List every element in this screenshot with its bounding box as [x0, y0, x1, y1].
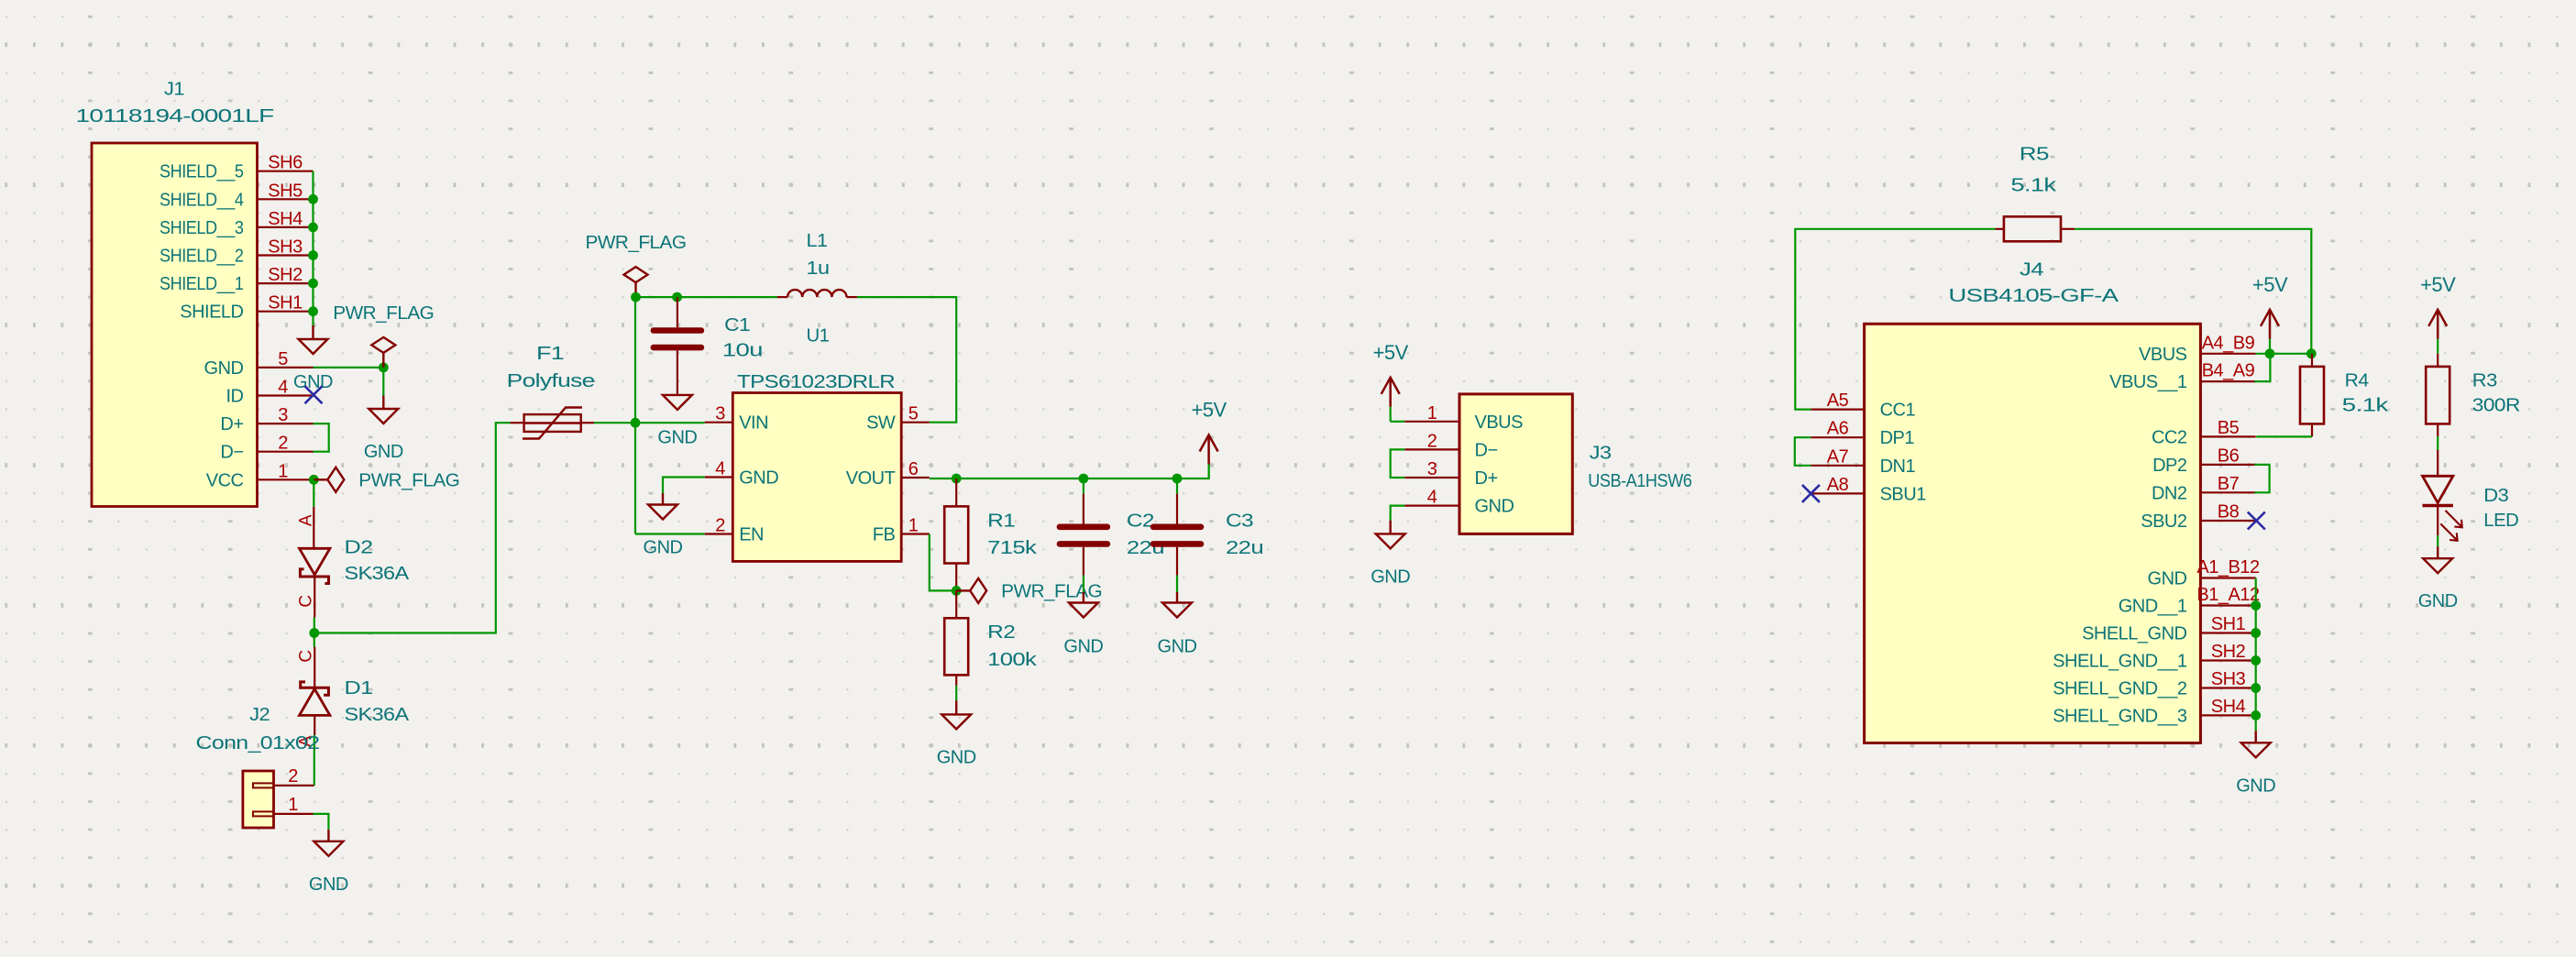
led D3 emission arrows — [2440, 511, 2462, 541]
svg-text:SH4: SH4 — [268, 209, 303, 229]
svg-text:715k: 715k — [987, 538, 1038, 558]
svg-text:U1: U1 — [807, 325, 830, 346]
svg-text:R2: R2 — [987, 622, 1015, 643]
resistor R3 body — [2426, 367, 2449, 424]
J4 pin SH1 SHELL_GND — [2200, 632, 2255, 633]
svg-text:USB-A1HSW6: USB-A1HSW6 — [1588, 471, 1691, 491]
wire C3 to ground — [1176, 576, 1178, 593]
J4 pin A1_B12 GND — [2200, 577, 2255, 578]
svg-text:A4_B9: A4_B9 — [2202, 333, 2255, 353]
svg-text:5: 5 — [908, 404, 919, 424]
svg-text:J2: J2 — [249, 705, 270, 725]
wire J2 pin1 to ground — [314, 814, 329, 830]
J4 pin B5 CC2 — [2200, 435, 2255, 437]
svg-text:B4_A9: B4_A9 — [2202, 361, 2255, 381]
resistor R4 bottom stem — [2311, 423, 2313, 436]
junction VOUT R1 — [952, 474, 962, 484]
capacitor C2 top stem — [1083, 494, 1084, 524]
junction J4 ground bus y=750.5 — [2251, 683, 2261, 693]
svg-text:SHELL_GND__2: SHELL_GND__2 — [2053, 679, 2187, 699]
svg-text:SH4: SH4 — [2211, 697, 2246, 717]
wire J4 DP2 DN2 short — [2254, 465, 2269, 492]
J4 pin B8 SBU2 — [2200, 520, 2255, 522]
J4 pin A7 DN1 — [1811, 465, 1864, 467]
svg-text:C2: C2 — [1127, 511, 1154, 531]
svg-text:Polyfuse: Polyfuse — [507, 371, 595, 391]
svg-text:SH1: SH1 — [2211, 614, 2246, 634]
led D3 cathode bar — [2423, 504, 2453, 507]
resistor R4 top stem — [2311, 354, 2313, 367]
resistor R5 body — [2004, 216, 2061, 241]
svg-text:DN2: DN2 — [2152, 483, 2187, 503]
svg-text:SH1: SH1 — [268, 293, 303, 313]
J3 pin 4 GND — [1404, 504, 1459, 506]
svg-text:DN1: DN1 — [1880, 456, 1916, 477]
J1 pin SH6 SHIELD__5 — [258, 170, 314, 172]
led D3 cathode pin — [2437, 506, 2438, 536]
junction J4 ground bus y=720.5 — [2251, 655, 2261, 665]
wire FB to R1 R2 node — [930, 534, 956, 591]
svg-text:SHELL_GND: SHELL_GND — [2082, 624, 2186, 644]
svg-text:SH3: SH3 — [268, 237, 303, 258]
U1 pin 6 VOUT — [901, 477, 930, 478]
junction VOUT C3 — [1172, 474, 1183, 484]
svg-text:GND: GND — [1475, 497, 1514, 517]
fuse F1 body — [523, 408, 582, 439]
svg-text:+5V: +5V — [1373, 341, 1409, 364]
svg-text:2: 2 — [1427, 431, 1437, 451]
svg-text:J1: J1 — [164, 79, 184, 99]
resistor R4 body — [2300, 367, 2324, 424]
svg-text:D2: D2 — [345, 537, 373, 557]
wire D2 cathode to junction — [314, 618, 315, 647]
wire J1 GND pin to PWR_FLAG junction — [314, 367, 384, 368]
svg-text:GND: GND — [204, 358, 244, 379]
svg-text:R4: R4 — [2345, 371, 2369, 391]
svg-text:DP2: DP2 — [2152, 456, 2187, 476]
power flag PWR_FLAG on J1 GND — [371, 337, 395, 368]
svg-text:SHIELD__1: SHIELD__1 — [160, 274, 244, 294]
svg-text:A5: A5 — [1827, 390, 1849, 411]
wire D1 anode to J2 pin 2 — [314, 735, 315, 786]
svg-text:GND: GND — [309, 874, 348, 895]
wire junction down to ground — [382, 368, 384, 396]
svg-text:TPS61023DRLR: TPS61023DRLR — [737, 372, 895, 392]
junction between D2 and D1 — [309, 628, 319, 638]
svg-text:SK36A: SK36A — [345, 705, 410, 725]
svg-text:USB4105-GF-A: USB4105-GF-A — [1948, 286, 2119, 306]
svg-text:VIN: VIN — [739, 413, 768, 434]
power +5V at VOUT rail — [1200, 435, 1218, 465]
svg-text:5.1k: 5.1k — [2010, 175, 2057, 195]
svg-text:22u: 22u — [1226, 538, 1263, 558]
junction VOUT C2 — [1079, 474, 1089, 484]
svg-text:GND: GND — [364, 442, 403, 462]
wire L1 to SW corner — [857, 297, 956, 423]
wire R3 to D3 — [2437, 436, 2438, 450]
svg-text:VBUS: VBUS — [2139, 345, 2187, 365]
ground below C2 — [1069, 592, 1098, 618]
svg-text:PWR_FLAG: PWR_FLAG — [1001, 581, 1102, 601]
svg-text:J4: J4 — [2020, 260, 2043, 280]
junction shield bus y=278.5 — [308, 250, 318, 260]
svg-text:SH3: SH3 — [2211, 669, 2246, 689]
svg-text:1: 1 — [278, 461, 288, 481]
junction shield bus y=309.1 — [308, 279, 318, 289]
capacitor C3 top stem — [1176, 494, 1178, 524]
connector J4 body — [1865, 324, 2201, 742]
power +5V at J4 VBUS — [2261, 310, 2279, 339]
svg-text:3: 3 — [715, 404, 725, 424]
svg-text:100k: 100k — [987, 650, 1038, 670]
svg-text:SHIELD: SHIELD — [180, 302, 243, 323]
svg-text:B7: B7 — [2218, 474, 2240, 494]
capacitor C3 plates — [1153, 523, 1201, 530]
svg-text:ID: ID — [226, 387, 244, 407]
svg-text:10118194-0001LF: 10118194-0001LF — [76, 106, 274, 126]
svg-text:GND: GND — [2148, 569, 2187, 589]
wire EN to U1 — [635, 533, 705, 534]
capacitor C3 bottom stem — [1176, 547, 1178, 576]
J4 pin A4_B9 VBUS — [2200, 353, 2255, 355]
svg-text:GND__1: GND__1 — [2119, 597, 2187, 617]
J2 pin 2 — [274, 785, 314, 786]
ground below R2 — [941, 700, 971, 729]
fuse F1 left pin — [511, 422, 524, 423]
svg-text:GND: GND — [644, 538, 683, 558]
resistor R1 bottom stem — [955, 564, 957, 591]
svg-text:EN: EN — [739, 525, 764, 545]
svg-text:+5V: +5V — [1191, 399, 1227, 422]
diode D2 triangle — [300, 548, 330, 575]
led D3 anode pin — [2437, 450, 2438, 476]
svg-text:5.1k: 5.1k — [2342, 396, 2390, 416]
svg-text:R5: R5 — [2020, 145, 2049, 165]
svg-text:SHELL_GND__3: SHELL_GND__3 — [2053, 706, 2187, 726]
J1 pin SH2 SHIELD__1 — [258, 282, 314, 284]
wire J4 ground bus — [2255, 578, 2257, 731]
svg-text:VBUS__1: VBUS__1 — [2109, 372, 2187, 392]
svg-text:A1_B12: A1_B12 — [2196, 557, 2260, 577]
junction F1 VIN EN — [631, 418, 641, 428]
junction J4 ground bus y=780.4 — [2251, 710, 2261, 720]
svg-text:C: C — [297, 595, 316, 607]
svg-text:F1: F1 — [536, 344, 565, 364]
ground at J3 — [1376, 521, 1405, 549]
junction top rail PWR_FLAG — [631, 292, 641, 302]
svg-text:1u: 1u — [807, 258, 830, 279]
J3 pin 3 D+ — [1404, 477, 1459, 478]
resistor R5 left pin — [1996, 228, 2004, 230]
U1 pin 5 SW — [901, 422, 930, 423]
diode D2 anode pin — [313, 507, 314, 549]
resistor R2 body — [944, 618, 968, 675]
svg-text:A6: A6 — [1827, 419, 1849, 439]
J1 pin 4 ID — [258, 394, 314, 396]
J4 pin SH3 SHELL_GND__2 — [2200, 687, 2255, 688]
svg-text:3: 3 — [278, 405, 288, 425]
U1 pin 4 GND — [705, 476, 733, 478]
capacitor C1 plates — [654, 327, 701, 334]
inductor L1 left pin — [777, 296, 788, 298]
J4 pin A6 DP1 — [1811, 436, 1864, 438]
resistor R2 top stem — [955, 590, 957, 618]
svg-text:Conn_01x02: Conn_01x02 — [196, 733, 320, 753]
wire C2 to ground — [1083, 576, 1084, 593]
svg-text:D1: D1 — [345, 678, 373, 698]
J4 pin A5 CC1 — [1811, 409, 1864, 411]
svg-text:4: 4 — [1427, 488, 1437, 508]
svg-text:2: 2 — [278, 434, 288, 454]
svg-text:C3: C3 — [1226, 511, 1253, 531]
wire U1 GND pin to ground — [663, 478, 705, 494]
svg-text:B8: B8 — [2218, 502, 2240, 522]
regulator U1 body — [732, 393, 901, 562]
svg-text:SHIELD__4: SHIELD__4 — [160, 190, 244, 210]
J4 pin A8 SBU1 — [1811, 492, 1864, 494]
capacitor C1 top stem — [677, 297, 678, 327]
junction shield bus y=217.3 — [308, 194, 318, 204]
svg-text:GND: GND — [1158, 636, 1197, 656]
power flag PWR_FLAG at FB node — [956, 578, 986, 603]
fuse F1 right pin — [581, 422, 594, 423]
diode D2 schottky cathode bar — [300, 569, 328, 584]
svg-text:L1: L1 — [807, 231, 828, 251]
ground at U1 GND pin — [648, 493, 677, 520]
junction C1 top — [672, 292, 682, 302]
junction J1 VCC — [309, 475, 319, 485]
wire R5 to VBUS junction — [2075, 229, 2311, 354]
svg-text:SHIELD__2: SHIELD__2 — [160, 247, 244, 267]
svg-text:1: 1 — [1427, 403, 1437, 423]
svg-text:GND: GND — [739, 468, 778, 489]
svg-text:SBU2: SBU2 — [2141, 511, 2187, 532]
J4 pin SH2 SHELL_GND__1 — [2200, 659, 2255, 661]
svg-text:GND: GND — [657, 428, 697, 448]
svg-text:LED: LED — [2483, 511, 2518, 531]
svg-text:R3: R3 — [2472, 371, 2497, 391]
svg-text:B5: B5 — [2218, 418, 2240, 438]
capacitor C1 bottom stem — [677, 350, 678, 394]
power flag PWR_FLAG on VCC — [314, 467, 344, 492]
wire VOUT rail — [930, 465, 1209, 479]
connector J3 body — [1459, 394, 1572, 534]
svg-text:VCC: VCC — [206, 470, 244, 490]
junction VBUS +5V — [2265, 348, 2275, 358]
svg-text:A7: A7 — [1827, 446, 1849, 467]
U1 pin 2 EN — [705, 533, 733, 534]
power +5V at R3 — [2428, 310, 2447, 339]
resistor R1 body — [944, 506, 968, 563]
inductor L1 body — [787, 290, 846, 297]
wire VBUS to R4 node — [2256, 353, 2312, 355]
J3 pin 2 D− — [1404, 448, 1459, 450]
svg-text:SH2: SH2 — [268, 265, 303, 285]
resistor R3 bottom stem — [2437, 423, 2438, 436]
resistor R5 right pin — [2061, 228, 2075, 230]
svg-text:PWR_FLAG: PWR_FLAG — [586, 233, 687, 253]
svg-text:1: 1 — [288, 795, 298, 815]
J1 pin SH1 SHIELD — [258, 311, 314, 313]
capacitor C2 plates — [1060, 523, 1107, 530]
svg-text:VOUT: VOUT — [846, 468, 896, 489]
no-connect on J4 SBU1 — [1802, 485, 1820, 502]
ground on J1 GND net — [369, 396, 398, 424]
resistor R1 top stem — [955, 478, 957, 506]
svg-text:+5V: +5V — [2420, 273, 2456, 296]
svg-text:GND: GND — [2418, 591, 2458, 611]
J4 pin B1_A12 GND__1 — [2200, 604, 2255, 606]
connector J1 body — [92, 143, 258, 507]
connector J2 body — [243, 771, 274, 828]
resistor R3 top stem — [2437, 354, 2438, 367]
svg-text:SK36A: SK36A — [345, 564, 410, 584]
no-connect on J1 ID pin — [305, 386, 323, 403]
J4 pin B6 DP2 — [2200, 464, 2255, 466]
wire R2 to ground — [955, 686, 957, 701]
no-connect on J4 SBU2 — [2248, 512, 2265, 530]
svg-text:FB: FB — [873, 525, 896, 545]
svg-text:10u: 10u — [722, 341, 763, 361]
svg-text:3: 3 — [1427, 459, 1437, 479]
ground below C3 — [1162, 592, 1192, 618]
wire F1 to VIN junction — [594, 422, 705, 423]
diode D1 anode pin — [314, 715, 315, 735]
resistor R2 bottom stem — [955, 675, 957, 685]
svg-text:A8: A8 — [1827, 475, 1849, 495]
svg-text:C: C — [297, 650, 316, 662]
J1 pin SH5 SHIELD__4 — [258, 198, 314, 200]
wire junction to F1 branch — [314, 423, 511, 632]
junction J1 GND net — [379, 363, 389, 373]
ground at J4 shell — [2241, 731, 2271, 757]
wire J3 GND to ground — [1391, 506, 1405, 521]
wire +5V to J3 VBUS — [1391, 421, 1405, 423]
svg-text:D+: D+ — [1475, 468, 1498, 489]
J1 pin 2 D− — [258, 451, 314, 453]
wire CC2 to R4 — [2256, 435, 2312, 437]
junction shield bus y=247.9 — [308, 223, 318, 233]
diode D1 triangle — [300, 689, 330, 716]
U1 pin 1 FB — [901, 533, 930, 534]
junction VBUS R4 — [2306, 348, 2317, 358]
svg-text:+5V: +5V — [2252, 273, 2288, 296]
svg-text:SHIELD__5: SHIELD__5 — [160, 162, 244, 182]
svg-text:D3: D3 — [2483, 486, 2508, 506]
svg-text:SBU1: SBU1 — [1880, 484, 1927, 504]
svg-text:SHIELD__3: SHIELD__3 — [160, 218, 244, 238]
svg-text:6: 6 — [908, 459, 919, 479]
J1 pin 3 D+ — [258, 423, 314, 424]
junction shield bus y=339.7 — [308, 306, 318, 316]
svg-text:J3: J3 — [1590, 443, 1612, 463]
svg-text:2: 2 — [715, 516, 725, 536]
junction R1 R2 FB — [952, 586, 962, 596]
svg-text:SW: SW — [866, 413, 896, 434]
junction J4 ground bus y=660.5 — [2251, 600, 2261, 610]
U1 pin 3 VIN — [705, 422, 733, 423]
ground below C1 — [663, 395, 692, 410]
svg-text:GND: GND — [1371, 566, 1410, 587]
svg-text:DP1: DP1 — [1880, 428, 1915, 448]
wire VCC down to D2 — [313, 479, 314, 507]
J4 pin B4_A9 VBUS__1 — [2200, 380, 2255, 382]
svg-text:C1: C1 — [724, 315, 750, 335]
inductor L1 right pin — [846, 296, 857, 298]
svg-text:SH5: SH5 — [268, 181, 303, 201]
svg-text:SHELL_GND__1: SHELL_GND__1 — [2053, 652, 2187, 672]
svg-text:2: 2 — [288, 766, 298, 786]
power +5V at J3 — [1382, 378, 1400, 407]
svg-text:CC2: CC2 — [2152, 427, 2187, 447]
wire R5 to CC1 — [1795, 229, 1995, 410]
J4 pin B7 DN2 — [2200, 491, 2255, 493]
svg-text:GND: GND — [1063, 636, 1103, 656]
svg-text:4: 4 — [278, 378, 288, 398]
svg-text:VBUS: VBUS — [1475, 412, 1524, 433]
svg-text:D−: D− — [220, 443, 243, 463]
svg-text:R1: R1 — [987, 511, 1015, 531]
J3 pin 1 VBUS — [1404, 421, 1459, 423]
svg-text:GND: GND — [937, 747, 976, 767]
wire J1 shield bus — [312, 171, 314, 325]
J4 pin SH4 SHELL_GND__3 — [2200, 714, 2255, 716]
J1 pin 5 GND — [258, 367, 314, 368]
svg-text:D−: D− — [1475, 440, 1498, 460]
svg-text:5: 5 — [278, 349, 288, 369]
J1 pin SH3 SHIELD__2 — [258, 254, 314, 256]
J1 pin 1 VCC — [258, 478, 314, 480]
power flag PWR_FLAG at C1 rail — [624, 267, 648, 297]
svg-text:B1_A12: B1_A12 — [2196, 585, 2260, 605]
wire VBUS_1 up to VBUS — [2254, 354, 2270, 381]
led D3 triangle — [2423, 476, 2453, 502]
junction J4 ground bus y=690.5 — [2251, 628, 2261, 638]
svg-text:GND: GND — [2236, 775, 2275, 796]
svg-text:PWR_FLAG: PWR_FLAG — [333, 303, 434, 324]
wire J3 D- D+ short — [1391, 449, 1405, 478]
svg-text:GND: GND — [293, 372, 333, 392]
wire PWR_FLAG C1 vertical to EN — [634, 297, 636, 533]
svg-text:CC1: CC1 — [1880, 401, 1916, 421]
J2 pin 1 — [274, 813, 314, 815]
diode D1 schottky cathode bar — [301, 682, 329, 695]
wire C3 top stub — [1176, 478, 1178, 494]
svg-text:SH2: SH2 — [2211, 642, 2246, 662]
svg-text:1: 1 — [908, 516, 919, 536]
wire C2 top stub — [1083, 478, 1084, 494]
wire J1 D+ to D- short — [314, 423, 329, 452]
wire J4 DP1 DN1 short — [1795, 437, 1811, 466]
ground below D3 — [2423, 546, 2452, 573]
J1 pin SH4 SHIELD__3 — [258, 226, 314, 228]
wire top rail to L1 — [636, 296, 777, 298]
ground below J1 shield pins — [299, 325, 328, 354]
svg-text:PWR_FLAG: PWR_FLAG — [358, 470, 459, 490]
svg-text:SH6: SH6 — [268, 153, 303, 173]
capacitor C2 bottom stem — [1083, 547, 1084, 576]
diode D1 cathode pin — [314, 647, 315, 688]
diode D2 cathode pin — [314, 577, 315, 618]
svg-text:300R: 300R — [2472, 396, 2520, 416]
wire D3 to ground — [2437, 535, 2438, 546]
svg-text:D+: D+ — [220, 414, 243, 434]
ground at J2 — [314, 830, 343, 856]
svg-text:4: 4 — [715, 459, 725, 479]
svg-text:B6: B6 — [2218, 445, 2240, 466]
